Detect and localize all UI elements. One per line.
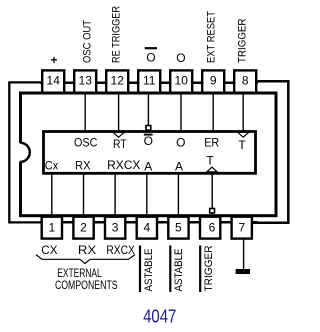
svg-text:EXT RESET: EXT RESET [206,11,218,63]
svg-text:3: 3 [112,221,119,235]
svg-text:A: A [175,159,183,173]
svg-text:CX: CX [41,243,57,257]
svg-text:4: 4 [143,221,150,235]
svg-text:8: 8 [242,74,249,88]
svg-text:O: O [176,135,185,149]
svg-text:RXCX: RXCX [106,243,134,257]
svg-text:OSC: OSC [74,135,98,149]
svg-text:9: 9 [210,74,217,88]
svg-text:Cx: Cx [45,159,58,173]
svg-text:RE TRIGGER: RE TRIGGER [111,6,123,63]
svg-text:7: 7 [238,221,245,235]
svg-text:TRIGGER: TRIGGER [203,245,215,291]
svg-text:+: + [50,53,57,67]
svg-text:ER: ER [204,136,219,150]
svg-text:2: 2 [80,221,87,235]
svg-text:RX: RX [75,158,91,172]
svg-text:6: 6 [209,221,216,235]
svg-text:13: 13 [79,74,93,88]
svg-text:ASTABLE: ASTABLE [143,249,155,292]
svg-text:A: A [144,159,152,173]
svg-text:10: 10 [175,74,189,88]
svg-text:RXCX: RXCX [107,158,140,172]
svg-text:O: O [144,134,153,148]
svg-text:T: T [238,138,246,152]
svg-text:COMPONENTS: COMPONENTS [55,278,118,292]
svg-text:1: 1 [48,221,55,235]
svg-text:11: 11 [143,74,156,88]
svg-text:14: 14 [47,74,61,88]
svg-text:RT: RT [113,137,127,151]
svg-text:RX: RX [78,243,96,257]
svg-text:12: 12 [111,74,125,88]
svg-text:ASTABLE: ASTABLE [173,249,185,292]
svg-text:O: O [146,51,155,65]
svg-text:TRIGGER: TRIGGER [236,18,248,63]
svg-text:5: 5 [175,221,182,235]
svg-text:OSC OUT: OSC OUT [82,20,94,63]
svg-text:4047: 4047 [143,307,176,327]
svg-text:O: O [176,51,185,65]
svg-text:T: T [206,154,214,168]
